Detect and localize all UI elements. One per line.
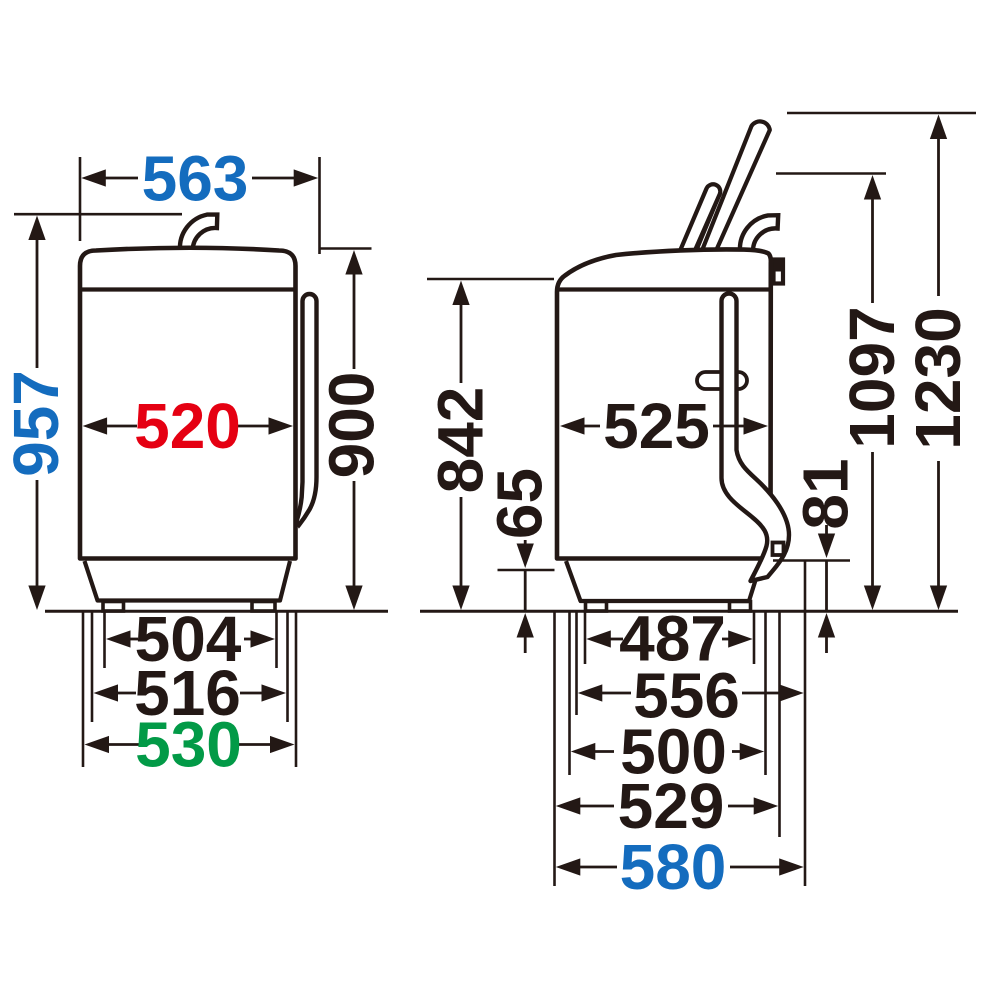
base pedestal (front view) bbox=[85, 561, 291, 601]
ext 957 top bbox=[14, 213, 182, 216]
arrows 900 bbox=[345, 250, 362, 275]
ext 563 right bbox=[318, 157, 321, 254]
ext 563 left bbox=[79, 157, 82, 241]
svg-text:957: 957 bbox=[0, 370, 72, 477]
svg-text:65: 65 bbox=[484, 468, 556, 539]
open lid front panel bbox=[680, 184, 721, 252]
dim 65 bbox=[524, 540, 527, 545]
ext 487 right bbox=[753, 612, 756, 664]
dim 530 bbox=[107, 743, 139, 746]
open lid rear panel bbox=[701, 121, 770, 253]
ext 530 left bbox=[82, 612, 85, 767]
ext 529 right bbox=[778, 612, 781, 837]
lid seam (side view) bbox=[557, 287, 771, 291]
dim 81 bbox=[825, 525, 828, 535]
arrows 530 bbox=[85, 736, 110, 753]
arrows 1097 bbox=[864, 175, 881, 200]
ext 504 right bbox=[275, 612, 278, 668]
ext 504 left bbox=[103, 612, 106, 668]
ext 516 right bbox=[286, 612, 289, 722]
right foot (side view) bbox=[730, 602, 751, 612]
svg-text:530: 530 bbox=[135, 709, 242, 781]
arrows 525 bbox=[560, 417, 585, 434]
svg-text:580: 580 bbox=[620, 831, 727, 903]
hose clip capsule (side view) bbox=[697, 372, 747, 389]
ext 530 right bbox=[295, 612, 298, 767]
arrows 580 bbox=[556, 858, 581, 875]
drain outlet block (side view rear bottom) bbox=[773, 543, 784, 556]
base pedestal (side view) bbox=[566, 561, 762, 601]
ext 842 top bbox=[427, 278, 554, 281]
svg-text:1230: 1230 bbox=[902, 307, 974, 449]
dim 1097 bbox=[871, 198, 874, 304]
dim 900 bbox=[353, 273, 356, 370]
arrows 563 bbox=[81, 169, 106, 186]
dim 563 bbox=[104, 177, 138, 180]
ext 500 left bbox=[568, 612, 571, 775]
svg-text:1097: 1097 bbox=[836, 306, 908, 448]
drain hose (side view) bbox=[722, 294, 790, 582]
arrows 957 bbox=[28, 216, 45, 241]
arrows 504 bbox=[106, 630, 131, 647]
arrows 529 bbox=[556, 797, 581, 814]
ext 516 left bbox=[91, 612, 94, 722]
hinge block (side view rear) bbox=[774, 260, 784, 284]
ground line (right) bbox=[420, 610, 958, 613]
dim 525 bbox=[583, 425, 601, 428]
machine body (side view) bbox=[557, 249, 771, 558]
svg-text:900: 900 bbox=[316, 372, 388, 479]
lid hook (front view) bbox=[180, 215, 217, 250]
ext 81 hose end bbox=[773, 559, 850, 562]
lid hook (side view) bbox=[740, 215, 778, 251]
svg-text:563: 563 bbox=[142, 143, 249, 215]
right foot (front view) bbox=[252, 602, 275, 612]
ext 556/580 right bbox=[804, 561, 807, 887]
dim 1230 bbox=[937, 137, 940, 296]
arrows 500 bbox=[571, 743, 596, 760]
dim 504 bbox=[129, 638, 139, 641]
dim 520 bbox=[106, 425, 138, 428]
arrows 520 bbox=[83, 417, 108, 434]
dim 516 bbox=[116, 692, 136, 695]
svg-text:525: 525 bbox=[603, 390, 710, 462]
drain hose (front view, right side) bbox=[297, 294, 317, 525]
left foot (side view) bbox=[586, 602, 607, 612]
svg-text:520: 520 bbox=[134, 390, 241, 462]
machine body (front view) bbox=[80, 248, 296, 559]
lid fold hatch lines bbox=[697, 193, 725, 253]
dim 580 bbox=[578, 866, 617, 869]
ext 900 top bbox=[320, 247, 372, 250]
dim 529 bbox=[578, 805, 614, 808]
ground line (left) bbox=[45, 610, 388, 613]
dim 556 bbox=[600, 692, 631, 695]
arrows 1230 bbox=[930, 115, 947, 140]
ext 556 left bbox=[575, 612, 578, 715]
ext 487 left bbox=[584, 612, 587, 664]
ext 529/580 left bbox=[553, 612, 556, 886]
dim 500 bbox=[593, 750, 614, 753]
arrows 556 bbox=[578, 684, 603, 701]
ext 1097 top bbox=[776, 172, 886, 175]
ext 1230 top bbox=[787, 112, 976, 115]
ext 65 mid bbox=[498, 569, 555, 572]
arrows 487 bbox=[586, 630, 611, 647]
arrows 842 bbox=[452, 281, 469, 306]
svg-text:81: 81 bbox=[790, 458, 862, 529]
dim 957 bbox=[36, 238, 39, 368]
dim 842 bbox=[460, 303, 463, 383]
dim 487 bbox=[609, 638, 623, 641]
left foot (front view) bbox=[103, 602, 124, 612]
arrows 81 bbox=[818, 534, 835, 559]
arrows 516 bbox=[94, 684, 119, 701]
arrows 65 bbox=[517, 544, 534, 569]
ext 500 right bbox=[764, 612, 767, 775]
lid seam (front view) bbox=[80, 287, 296, 291]
